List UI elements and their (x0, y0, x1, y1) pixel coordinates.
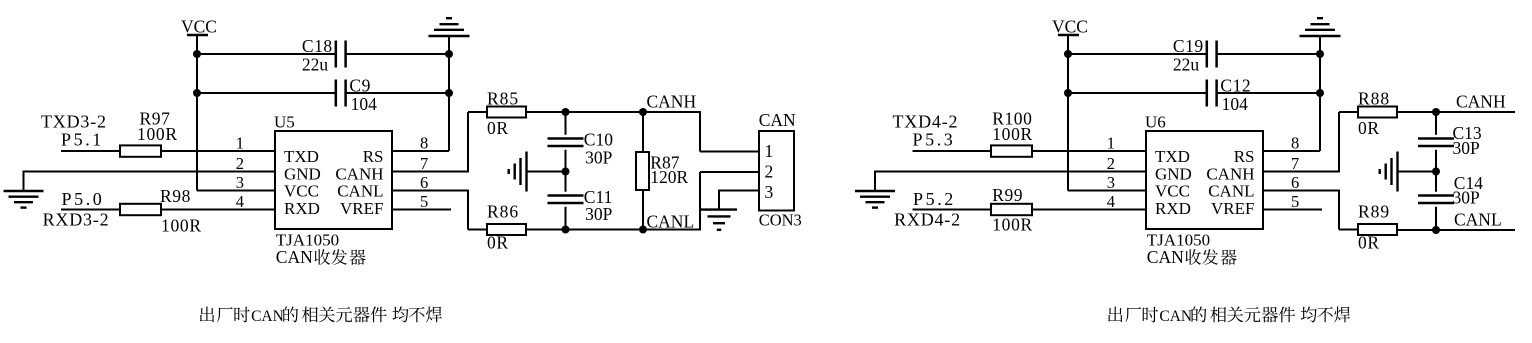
wire C18 to ground rail (346, 53, 449, 55)
wire R97 to pin 1 (161, 150, 275, 152)
svg-text:VCC: VCC (1052, 17, 1088, 37)
wire mid ground right (1398, 171, 1437, 173)
resistor R87 (120R termination) (636, 152, 649, 190)
resistor R86 (487, 224, 526, 235)
wire R86 to CANL node (526, 229, 700, 231)
wire ground rail (448, 36, 450, 151)
ground (top) (1300, 35, 1341, 37)
wire R100 to pin 1 (1032, 150, 1146, 152)
capacitor C11 (548, 194, 584, 197)
svg-text:CANH: CANH (1456, 92, 1506, 112)
junction VCC-C9 (193, 89, 201, 97)
svg-text:GND: GND (284, 164, 321, 183)
capacitor C10 (548, 137, 584, 140)
svg-text:R98: R98 (160, 186, 191, 206)
wire to C13 (1435, 112, 1437, 135)
svg-text:GND: GND (1155, 164, 1192, 183)
caption right (出厂时CAN的相关元器件均不焊) (1108, 307, 1122, 323)
capacitor C12 (1206, 80, 1209, 107)
svg-text:CANH: CANH (1206, 164, 1254, 183)
junction C14 bottom (1432, 226, 1440, 234)
ground (connector) (701, 208, 737, 210)
svg-text:RS: RS (363, 147, 384, 166)
capacitor C14 (1418, 194, 1454, 197)
wire ground rail (1319, 36, 1321, 151)
junction gnd-C9 (1316, 89, 1324, 97)
svg-text:C19: C19 (1173, 36, 1204, 56)
wire C14 to CANL row (1435, 207, 1437, 230)
svg-text:1: 1 (1107, 134, 1115, 153)
wire R99 to pin 4 (1032, 209, 1146, 211)
ground (middle right, left-pointing) (1396, 152, 1398, 192)
junction VCC-C9 (1064, 89, 1072, 97)
svg-text:2: 2 (236, 154, 244, 173)
svg-text:RS: RS (1234, 147, 1255, 166)
wire CANH down to connector pin 1 (699, 111, 701, 152)
svg-text:VREF: VREF (340, 199, 383, 218)
wire C13 to mid node (1435, 150, 1437, 172)
wire C10 to mid node (565, 150, 567, 172)
wire C19 to ground rail (1217, 53, 1320, 55)
svg-text:100R: 100R (992, 215, 1033, 235)
junction R87 top / CANH (639, 108, 647, 116)
resistor R98 (120, 204, 161, 215)
svg-text:RXD3-2: RXD3-2 (43, 210, 110, 230)
svg-text:4: 4 (236, 192, 244, 211)
capacitor C9 (335, 80, 338, 107)
wire mid node to C11 (565, 172, 567, 192)
svg-text:R99: R99 (992, 185, 1023, 205)
svg-text:CANL: CANL (337, 182, 383, 201)
wire VCC to C19 (1068, 53, 1207, 55)
svg-text:P5.0: P5.0 (62, 189, 105, 209)
IC U5 TJA1050 (275, 131, 392, 229)
svg-text:P5.3: P5.3 (913, 129, 956, 149)
svg-text:4: 4 (1107, 192, 1115, 211)
junction gnd-C18 (1316, 50, 1324, 58)
svg-text:30P: 30P (585, 204, 613, 224)
svg-text:CANL: CANL (647, 212, 695, 232)
svg-text:7: 7 (1291, 154, 1299, 173)
svg-text:CAN: CAN (1147, 247, 1184, 267)
svg-text:P5.2: P5.2 (913, 189, 956, 209)
svg-text:C18: C18 (302, 36, 333, 56)
wire C9 to ground rail (346, 92, 449, 94)
wire VCC to C12 (1068, 92, 1207, 94)
svg-text:6: 6 (420, 173, 428, 192)
svg-text:P5.1: P5.1 (61, 129, 104, 149)
svg-text:CANL: CANL (1454, 210, 1502, 230)
caption left (出厂时CAN的相关元器件均不焊) (200, 307, 214, 323)
svg-text:0R: 0R (487, 233, 509, 253)
svg-text:CON3: CON3 (759, 211, 802, 230)
svg-text:VREF: VREF (1211, 199, 1254, 218)
svg-text:RXD4-2: RXD4-2 (894, 210, 961, 230)
wire ground rail to pin 8 (392, 150, 449, 152)
svg-text:1: 1 (236, 134, 244, 153)
junction C11 bottom (562, 226, 570, 234)
svg-text:0R: 0R (1358, 118, 1380, 138)
wire pin 7 to R-top (1263, 171, 1339, 173)
wire R85 to CANH node (526, 111, 700, 113)
svg-text:C10: C10 (584, 129, 613, 149)
svg-text:100R: 100R (992, 124, 1033, 144)
svg-text:RXD: RXD (284, 199, 320, 218)
svg-text:0R: 0R (487, 118, 509, 138)
wire VCC rail (196, 35, 198, 191)
svg-text:CANH: CANH (335, 164, 383, 183)
connector CON3 (759, 131, 794, 211)
svg-text:CANL: CANL (1208, 182, 1254, 201)
svg-text:U5: U5 (274, 113, 295, 132)
junction VCC-C18 (1064, 50, 1072, 58)
svg-text:30P: 30P (585, 148, 613, 168)
svg-text:22u: 22u (302, 55, 329, 75)
svg-text:3: 3 (765, 182, 774, 202)
wire R98 to pin 4 (161, 209, 275, 211)
ground (middle, left-pointing) (525, 152, 527, 192)
svg-text:3: 3 (1107, 173, 1115, 192)
svg-text:8: 8 (420, 134, 428, 153)
svg-text:30P: 30P (1453, 188, 1481, 208)
wire pin 2 to ground (875, 171, 1146, 173)
svg-text:100R: 100R (161, 216, 202, 236)
wire VCC rail (1067, 35, 1069, 191)
wire VCC to pin 3 (197, 190, 275, 192)
wire R88 to CANH (1398, 111, 1515, 113)
capacitor C13 (1418, 137, 1454, 140)
junction R87 bottom / CANL (639, 226, 647, 234)
svg-text:TXD: TXD (1155, 147, 1190, 166)
svg-text:VCC: VCC (1155, 182, 1190, 201)
junction mid C13/C14 (1432, 168, 1440, 176)
wire pin 6 to R-bottom (392, 190, 468, 192)
resistor R89 (1358, 224, 1397, 235)
wire R87 to CANL (642, 190, 644, 230)
wire TXD net (913, 150, 992, 152)
wire ground rail to pin 8 (1263, 150, 1320, 152)
ground (left) (4, 190, 44, 192)
capacitor C18 (335, 41, 338, 68)
wire pin 7 to R-top (392, 171, 468, 173)
svg-text:3: 3 (236, 173, 244, 192)
wire C11 to CANL row (565, 207, 567, 230)
svg-text:120R: 120R (650, 167, 688, 187)
svg-text:0R: 0R (1358, 233, 1380, 253)
wire connector pin 3 (719, 190, 759, 192)
svg-text:TXD: TXD (284, 147, 319, 166)
resistor R88 (1358, 107, 1397, 118)
svg-text:5: 5 (1291, 192, 1299, 211)
wire C12 to ground rail (1217, 92, 1320, 94)
svg-text:30P: 30P (1453, 138, 1481, 158)
svg-text:100R: 100R (137, 124, 178, 144)
svg-text:RXD: RXD (1155, 199, 1191, 218)
svg-text:CAN: CAN (276, 247, 313, 267)
wire pin 5 stub (392, 209, 451, 211)
svg-text:R88: R88 (1358, 89, 1390, 109)
IC U6 TJA1050 (1146, 131, 1263, 229)
wire RXD net (61, 209, 120, 211)
svg-text:R85: R85 (487, 89, 519, 109)
svg-text:R86: R86 (487, 202, 519, 222)
svg-text:VCC: VCC (181, 17, 217, 37)
svg-text:1: 1 (765, 141, 774, 161)
resistor R99 (991, 204, 1032, 215)
svg-text:2: 2 (765, 162, 774, 182)
svg-text:2: 2 (1107, 154, 1115, 173)
svg-text:R89: R89 (1358, 202, 1390, 222)
svg-text:22u: 22u (1173, 55, 1200, 75)
wire VCC to pin 3 (1068, 190, 1146, 192)
wire mid ground (527, 171, 566, 173)
svg-text:5: 5 (420, 192, 428, 211)
junction C10 top (562, 108, 570, 116)
svg-text:CAN: CAN (1159, 308, 1192, 325)
svg-text:CAN: CAN (759, 110, 796, 130)
wire RXD net (913, 209, 992, 211)
wire CANH to R87 (642, 112, 644, 152)
wire to C10 (565, 112, 567, 135)
wire pin 5 stub (1263, 209, 1322, 211)
junction mid C10/C11 (562, 168, 570, 176)
junction VCC-C18 (193, 50, 201, 58)
wire pin 6 to R-bottom (1263, 190, 1339, 192)
wire pin 2 to ground (24, 171, 276, 173)
svg-text:VCC: VCC (284, 182, 319, 201)
svg-text:7: 7 (420, 154, 428, 173)
svg-text:8: 8 (1291, 134, 1299, 153)
junction C13 top (1432, 108, 1440, 116)
svg-text:CAN: CAN (251, 308, 284, 325)
svg-text:CANH: CANH (647, 92, 697, 112)
ground (top) (429, 35, 470, 37)
capacitor C19 (1206, 41, 1209, 68)
resistor R85 (487, 107, 526, 118)
wire R89 to CANL (1398, 229, 1515, 231)
ground (left) (855, 190, 895, 192)
wire TXD net (61, 150, 120, 152)
junction gnd-C9 (445, 89, 453, 97)
svg-text:6: 6 (1291, 173, 1299, 192)
wire CANL up to connector pin 2 (699, 172, 701, 231)
resistor R100 (991, 145, 1032, 156)
wire VCC to C9 (197, 92, 336, 94)
svg-text:U6: U6 (1145, 113, 1166, 132)
resistor R97 (120, 145, 161, 156)
svg-text:104: 104 (351, 94, 378, 114)
svg-text:104: 104 (1222, 94, 1249, 114)
wire VCC to C18 (197, 53, 336, 55)
junction gnd-C18 (445, 50, 453, 58)
wire mid node to C14 (1435, 172, 1437, 192)
